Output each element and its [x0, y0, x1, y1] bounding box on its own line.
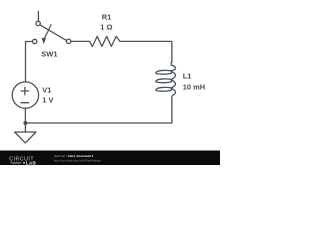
wire right terminal to resistor: [71, 40, 90, 42]
V1 minus sign: [21, 102, 29, 104]
svg-text:1 Ω: 1 Ω: [100, 22, 112, 31]
switch SW1 top terminal: [36, 21, 40, 25]
svg-text:SW1: SW1: [41, 49, 57, 58]
switch SW1 right terminal: [66, 39, 70, 43]
ground symbol: [15, 132, 36, 143]
svg-text:pipirisan / Lab4_Exercise2.1: pipirisan / Lab4_Exercise2.1: [54, 154, 94, 158]
CircuitLab logo square mark: [23, 162, 25, 164]
switch SW1 arrowhead: [42, 38, 46, 44]
wire coil to bottom-right corner and bottom rail: [25, 97, 171, 123]
svg-text:L1: L1: [183, 72, 192, 81]
voltage source V1 circle: [12, 82, 38, 108]
node junction dot: [23, 121, 27, 125]
svg-text:V1: V1: [42, 86, 51, 95]
footer bar: [0, 151, 220, 166]
svg-text:10 mH: 10 mH: [183, 83, 206, 92]
svg-text:http://circuitlab.com/c6h78ad6: http://circuitlab.com/c6h78ad6ahqqz: [54, 159, 102, 163]
CircuitLab logo waveform: [10, 162, 21, 164]
switch SW1 arm: [40, 25, 67, 41]
wire resistor to top-right corner: [120, 41, 172, 62]
inductor L1 coil: [156, 62, 176, 98]
wire junction to ground: [24, 123, 26, 132]
svg-text:1 V: 1 V: [42, 95, 53, 104]
wire V1 bottom to junction: [24, 108, 26, 123]
switch SW1 left terminal: [33, 39, 37, 43]
switch SW1 actuation arc: [45, 25, 52, 38]
V1 plus sign: [21, 87, 29, 94]
switch SW1 top stub wire: [37, 11, 39, 21]
svg-text:R1: R1: [102, 13, 112, 22]
wire left terminal to left rail corner: [26, 42, 33, 83]
resistor R1 body: [90, 36, 120, 46]
svg-text:LAB: LAB: [26, 160, 37, 165]
